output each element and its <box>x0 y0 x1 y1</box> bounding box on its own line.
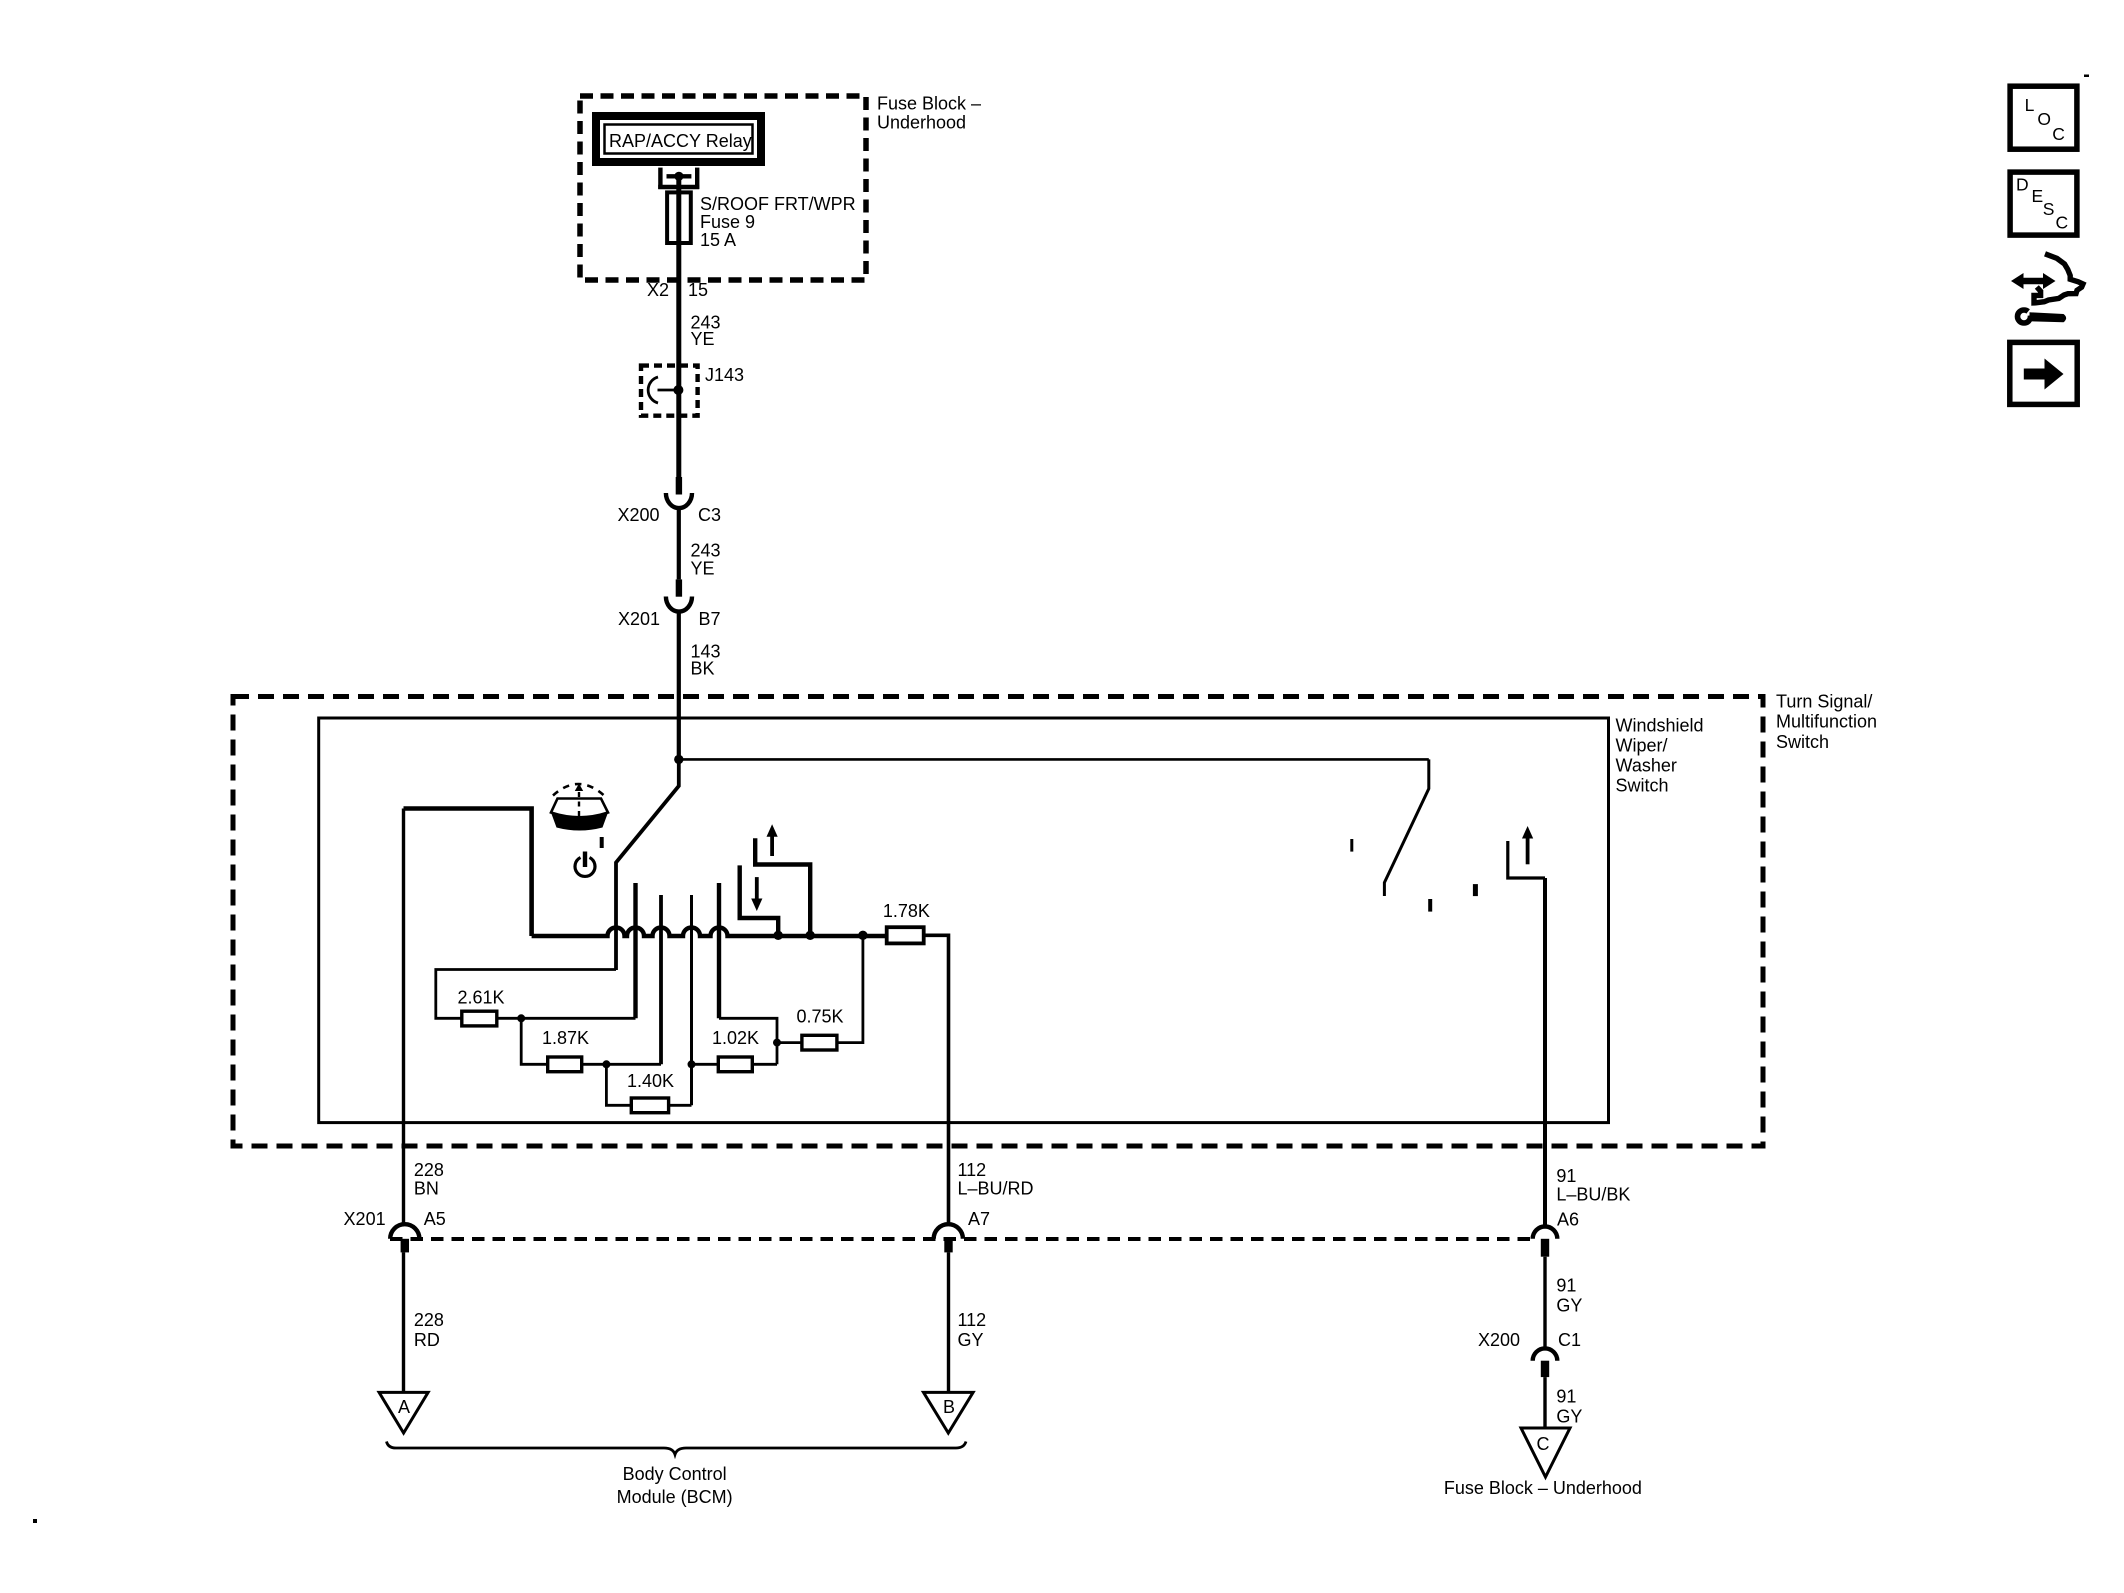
svg-text:J143: J143 <box>705 365 744 385</box>
label Body Control Module (BCM) <box>617 1464 733 1507</box>
resistor 1.87K <box>542 1028 589 1072</box>
power (off) icon <box>575 837 602 876</box>
svg-text:O: O <box>2037 109 2051 129</box>
svg-text:A: A <box>398 1397 410 1417</box>
off-page triangle C <box>1521 1428 1570 1477</box>
svg-text:Multifunction: Multifunction <box>1776 712 1877 732</box>
node up-bracket <box>806 931 815 940</box>
label 228 BN <box>414 1160 444 1198</box>
svg-text:15 A: 15 A <box>700 230 736 250</box>
wire 91 GY down to triangle C <box>1543 1377 1546 1428</box>
finger f5 <box>717 883 721 1018</box>
svg-text:Fuse 9: Fuse 9 <box>700 212 755 232</box>
resistor 1.02K <box>712 1028 759 1072</box>
node: junction of feed wire <box>674 755 683 764</box>
node on f4 at 1.02K line <box>688 1060 696 1068</box>
label 91 GY (1) <box>1556 1276 1582 1316</box>
down-arrow bracket (wash position) <box>740 865 779 936</box>
right contact assembly (turn signal side) <box>1384 759 1428 896</box>
thick L feed wire to 228 output <box>404 809 532 937</box>
svg-text:YE: YE <box>691 559 715 579</box>
svg-text:Wiper/: Wiper/ <box>1616 736 1668 756</box>
finger f2 <box>633 883 637 1018</box>
fuse block underhood dashed box <box>580 96 866 280</box>
svg-text:X200: X200 <box>1478 1330 1520 1350</box>
label 91 L-BU/BK <box>1556 1166 1630 1205</box>
DESC icon box <box>2010 172 2077 235</box>
svg-text:X201: X201 <box>344 1209 386 1229</box>
label 112 L-BU/RD <box>958 1160 1034 1198</box>
svg-text:1.40K: 1.40K <box>627 1071 674 1091</box>
svg-text:C: C <box>2056 213 2069 233</box>
label 91 GY (2) <box>1556 1387 1582 1427</box>
switch arm (wiper rotary wiper-arm) <box>616 759 679 970</box>
label 228 RD <box>414 1310 444 1350</box>
svg-text:2.61K: 2.61K <box>457 987 504 1007</box>
wire down to 1.87K <box>521 1018 548 1064</box>
wire down to 1.40K <box>606 1064 631 1105</box>
svg-text:E: E <box>2032 186 2044 206</box>
wire 1.40K to f4 <box>669 1104 692 1107</box>
wire 228 down from switch <box>402 809 405 1225</box>
wire label 243 YE (2) <box>691 540 721 578</box>
svg-text:S/ROOF FRT/WPR: S/ROOF FRT/WPR <box>700 194 856 214</box>
wire: arm bottom to resistor ladder <box>436 970 616 1019</box>
up-arrow bracket (mist position) <box>755 824 810 936</box>
wire 112 GY down to triangle B <box>947 1252 950 1392</box>
connector pin A7 <box>934 1209 990 1253</box>
svg-text:112: 112 <box>958 1160 987 1180</box>
svg-text:112: 112 <box>958 1310 987 1330</box>
fuse F9 S/ROOF FRT/WPR 15A <box>667 192 856 250</box>
wire after X200 <box>677 509 681 580</box>
svg-text:RAP/ACCY Relay: RAP/ACCY Relay <box>609 131 752 151</box>
off-page triangle A <box>379 1392 428 1433</box>
svg-text:X201: X201 <box>618 609 660 629</box>
svg-text:L–BU/RD: L–BU/RD <box>958 1179 1034 1199</box>
node after 2.61K <box>517 1014 525 1022</box>
tick contact 1 <box>1350 839 1353 852</box>
wire 1.87K to f3 <box>582 1063 661 1066</box>
resistor 1.78K <box>883 901 930 943</box>
svg-text:C: C <box>1537 1434 1550 1454</box>
wire f4 to 1.02K <box>692 1063 719 1066</box>
right bracket with up arrow (91 output) <box>1508 826 1545 878</box>
svg-text:Switch: Switch <box>1776 732 1829 752</box>
resistor 0.75K <box>777 1007 844 1051</box>
svg-text:RD: RD <box>414 1330 440 1350</box>
svg-text:GY: GY <box>958 1330 984 1350</box>
svg-text:Underhood: Underhood <box>877 113 966 133</box>
svg-text:Body Control: Body Control <box>623 1464 727 1484</box>
svg-text:D: D <box>2016 174 2029 194</box>
label Turn Signal/Multifunction Switch <box>1776 692 1877 752</box>
wire into switch box <box>677 612 681 760</box>
svg-text:GY: GY <box>1556 1407 1582 1427</box>
wire label 243 YE (1) <box>691 313 721 350</box>
tick contact 2 <box>1428 899 1432 912</box>
splice J143 symbol <box>648 377 683 403</box>
relay RAP/ACCY Relay box <box>596 116 761 162</box>
svg-text:243: 243 <box>691 540 721 560</box>
svg-text:B: B <box>943 1397 955 1417</box>
svg-text:C3: C3 <box>698 505 721 525</box>
svg-text:C: C <box>2052 124 2065 144</box>
wire label 143 BK <box>691 641 721 678</box>
svg-text:91: 91 <box>1556 1166 1576 1186</box>
stray mark top right <box>2084 75 2089 78</box>
svg-text:A5: A5 <box>424 1209 446 1229</box>
svg-text:BK: BK <box>691 659 715 679</box>
wire 2.61K to f2 <box>497 1017 636 1020</box>
wire 91 output down <box>1543 878 1547 1225</box>
svg-text:A7: A7 <box>968 1209 990 1229</box>
schematic jump icon (double arrow + outline + wrench) <box>2011 254 2083 323</box>
svg-text:Turn Signal/: Turn Signal/ <box>1776 692 1872 712</box>
svg-text:Module (BCM): Module (BCM) <box>617 1487 733 1507</box>
svg-text:C1: C1 <box>1558 1330 1581 1350</box>
svg-text:1.78K: 1.78K <box>883 901 930 921</box>
svg-text:L: L <box>2025 95 2035 115</box>
svg-text:GY: GY <box>1556 1296 1582 1316</box>
turn signal multifunction switch dashed box <box>233 697 1763 1147</box>
connector X200 pin C3 (pin + cup) <box>617 477 721 525</box>
wire 1.78K output down (112 feed) <box>924 935 949 1224</box>
brace BCM <box>387 1442 967 1455</box>
scalloped rotary contact line with 5 humps <box>532 928 887 937</box>
svg-text:YE: YE <box>691 329 715 349</box>
connector X200 pin C1 <box>1478 1330 1581 1377</box>
stray mark bottom left <box>33 1519 37 1523</box>
finger f4 <box>690 895 693 1105</box>
next-page arrow icon box <box>2010 342 2077 404</box>
svg-text:91: 91 <box>1556 1387 1576 1407</box>
off-page triangle B <box>924 1392 974 1433</box>
wire 228 RD down to triangle A <box>402 1252 405 1392</box>
connector row X201 dashed line <box>390 1237 1532 1241</box>
connector pin A6 <box>1533 1210 1579 1257</box>
svg-text:228: 228 <box>414 1310 444 1330</box>
node 0.75K tap <box>858 931 867 940</box>
pin label X2 | 15 <box>647 280 708 300</box>
wire 1.02K to vertical <box>752 1063 777 1066</box>
svg-text:S: S <box>2043 199 2055 219</box>
LOC icon box <box>2010 86 2077 149</box>
resistor 1.40K <box>627 1071 674 1113</box>
svg-text:Switch: Switch <box>1616 776 1669 796</box>
svg-text:15: 15 <box>688 280 708 300</box>
node down-bracket <box>774 931 783 940</box>
wire 91 GY to X200 C1 <box>1543 1257 1546 1348</box>
label Windshield Wiper/Washer Switch <box>1616 716 1704 796</box>
connector X201 pin B7 (pin + cup) <box>618 579 721 629</box>
relay contact symbol <box>658 168 699 189</box>
wiper icon (windshield wiper symbol) <box>551 784 608 831</box>
svg-text:91: 91 <box>1556 1276 1576 1296</box>
svg-text:1.02K: 1.02K <box>712 1028 759 1048</box>
svg-text:L–BU/BK: L–BU/BK <box>1556 1185 1630 1205</box>
svg-text:X200: X200 <box>617 505 659 525</box>
wire: relay to fuse to X2 connector (supply wire) <box>676 176 681 477</box>
label 112 GY <box>958 1310 987 1350</box>
svg-text:B7: B7 <box>699 609 721 629</box>
wire 0.75K right up to line <box>837 935 863 1042</box>
finger f3 <box>659 895 663 1064</box>
label Fuse Block - Underhood (top) <box>877 94 981 133</box>
svg-text:BN: BN <box>414 1179 439 1199</box>
svg-text:Fuse Block – Underhood: Fuse Block – Underhood <box>1444 1478 1642 1498</box>
svg-text:A6: A6 <box>1557 1210 1579 1230</box>
svg-text:1.87K: 1.87K <box>542 1028 589 1048</box>
splice J143 dashed box <box>641 366 698 416</box>
node 0.75K left <box>773 1039 781 1047</box>
svg-text:Washer: Washer <box>1616 756 1677 776</box>
svg-text:228: 228 <box>414 1160 444 1180</box>
svg-text:0.75K: 0.75K <box>796 1007 843 1027</box>
svg-text:Windshield: Windshield <box>1616 716 1704 736</box>
wire f5 to 0.75K vertical <box>719 1018 777 1064</box>
svg-text:Fuse Block –: Fuse Block – <box>877 94 981 114</box>
svg-text:X2: X2 <box>647 280 669 300</box>
windshield wiper washer switch solid box <box>319 718 1609 1123</box>
connector X201 pin A5 <box>344 1209 446 1253</box>
wire: horizontal feed to right contact <box>679 758 1429 761</box>
node after 1.87K <box>602 1060 610 1068</box>
resistor 2.61K <box>457 987 504 1026</box>
tick contact 3 <box>1473 884 1478 896</box>
